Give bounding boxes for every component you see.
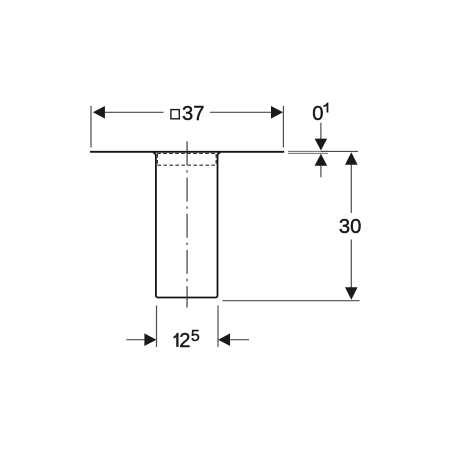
svg-text:2: 2	[179, 330, 190, 352]
extension line bottom-left for dim 12.5	[156, 306, 158, 348]
dim 12.5 right leader	[231, 339, 250, 341]
dim 12.5 arrow pointing left	[218, 333, 230, 346]
svg-text:30: 30	[339, 216, 361, 238]
extension line bottom-right for dim 12.5	[217, 306, 219, 348]
dim 12.5 left leader	[126, 339, 144, 341]
dim 0.1 vertical line below	[320, 166, 322, 178]
dim 30 arrow down	[345, 287, 358, 300]
extension line right of plate	[282, 106, 284, 148]
hidden bore dashed bottom	[157, 164, 216, 166]
svg-text:5: 5	[191, 328, 200, 345]
svg-text:0: 0	[312, 103, 323, 125]
dim 30 arrow up	[345, 152, 358, 165]
centerline (dash-dot)	[186, 141, 188, 307]
tube outline	[153, 152, 221, 297]
plate (side view of square plate 37)	[90, 151, 284, 153]
hidden bore dashed right	[215, 154, 217, 165]
arrowhead right of dim 37	[271, 106, 283, 119]
arrowhead left of dim 37	[93, 106, 105, 119]
extension line left of plate	[90, 106, 92, 148]
dimension line for square 37 (left segment)	[105, 111, 164, 113]
dim 0.1 arrow pointing down	[315, 139, 328, 151]
dim 0.1 vertical line above	[320, 123, 322, 139]
thin sheet double line (gray) bottom	[288, 152, 328, 154]
svg-text:37: 37	[182, 103, 204, 125]
extension line bottom for dim 30	[223, 300, 360, 302]
extension line top for dim 30	[321, 150, 358, 152]
dim 30 vertical line lower segment	[350, 240, 352, 288]
dim 30 vertical line upper segment	[350, 165, 352, 214]
square symbol of dim 37	[171, 110, 179, 119]
thin sheet double line (gray) top	[288, 150, 328, 152]
label 12.5 : 12 with superscript 5	[174, 333, 179, 347]
dimension line for square 37 (right segment)	[210, 111, 271, 113]
dim 0.1 arrow pointing up	[315, 154, 328, 166]
hidden bore dashed left	[156, 154, 158, 165]
hidden bore dashed top	[157, 153, 216, 155]
dim 12.5 arrow pointing right	[144, 333, 156, 346]
